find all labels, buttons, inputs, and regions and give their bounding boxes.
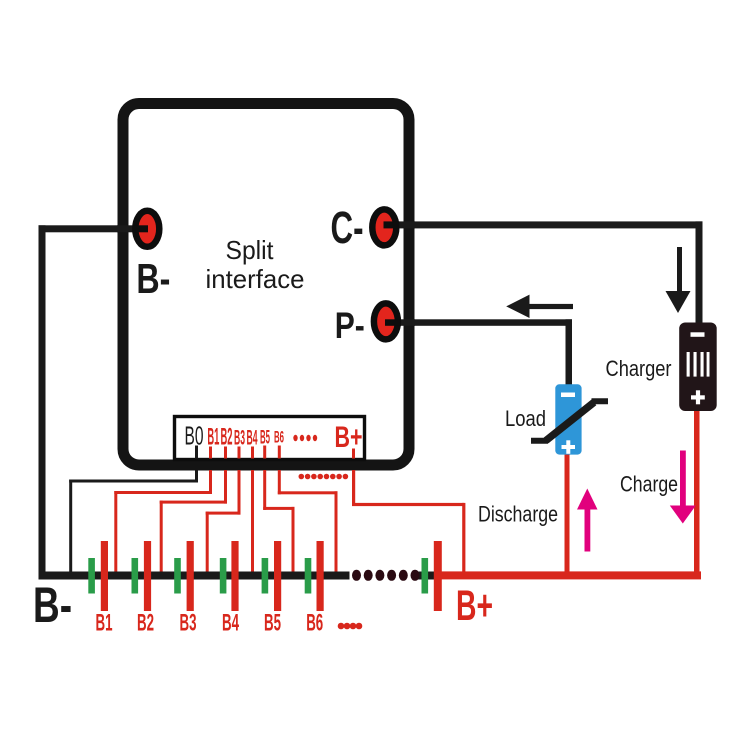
load plus mark (562, 445, 576, 449)
svg-text:B1: B1 (96, 610, 113, 637)
svg-text:B4: B4 (222, 610, 239, 637)
svg-text:B6: B6 (274, 428, 284, 447)
cell B1 red plate (101, 541, 108, 611)
svg-text:B5: B5 (260, 428, 270, 449)
switch diagonal over load (531, 401, 608, 441)
wire P- vertical down to load (566, 319, 573, 386)
wire B+ balance (352, 470, 465, 573)
charger minus mark (691, 332, 705, 337)
cell B4 red plate (231, 541, 238, 611)
op board: BMS split interface module (123, 104, 409, 466)
svg-text:Load: Load (505, 406, 546, 431)
svg-text:Discharge: Discharge (478, 502, 558, 527)
cell B3 red plate (187, 541, 194, 611)
wire charger red vertical (694, 410, 700, 573)
load body (555, 384, 581, 454)
cell B1 green plate (88, 558, 95, 594)
svg-text:B3: B3 (180, 610, 197, 637)
connector box on board (175, 417, 365, 460)
wire P- horizontal to right (385, 319, 572, 326)
battery main line right segment (417, 572, 435, 580)
wire B6 balance (278, 470, 338, 576)
svg-text:Split: Split (226, 235, 275, 265)
svg-text:B+: B+ (335, 421, 363, 454)
terminal B- (135, 211, 159, 247)
wire B3 balance (206, 470, 241, 576)
arrow magenta down (charge) (680, 451, 686, 508)
arrow black down (to charger) (677, 247, 682, 293)
wire discharge red vertical from load (565, 452, 570, 573)
arrow black left (discharge direction) (527, 304, 573, 309)
dotted red row below board (299, 474, 349, 480)
svg-text:B3: B3 (234, 426, 245, 450)
svg-text:B4: B4 (247, 426, 258, 450)
dots after B6 label (338, 623, 363, 630)
wire tip into B- terminal (133, 225, 148, 232)
wire B1 balance (114, 470, 212, 576)
wire stub P- through border (381, 319, 415, 326)
charger grill bars (687, 352, 710, 377)
wire B- left vertical down to battery line (39, 225, 46, 577)
cell B+ red plate (434, 541, 442, 611)
svg-text:B0: B0 (185, 421, 204, 451)
cell B3 green plate (174, 558, 181, 594)
wire C- vertical down to charger (696, 221, 703, 324)
svg-text:B2: B2 (137, 610, 154, 637)
wire tip into C- terminal (384, 221, 400, 228)
cell B6 green plate (305, 558, 312, 594)
cell B5 red plate (274, 541, 281, 611)
charger plus mark (691, 395, 705, 399)
svg-text:B-: B- (136, 255, 170, 302)
svg-text:Charge: Charge (620, 472, 678, 497)
terminal P- (374, 303, 398, 339)
svg-text:B1: B1 (207, 424, 219, 451)
svg-text:B2: B2 (221, 424, 233, 451)
svg-text:B-: B- (33, 577, 72, 633)
svg-text:Charger: Charger (606, 356, 672, 381)
wire B2 balance (160, 470, 227, 576)
svg-text:interface: interface (206, 264, 305, 294)
cell B2 green plate (132, 558, 139, 594)
battery main line left segment (39, 572, 350, 580)
wire B- left (horizontal from B- terminal to left edge corner) (39, 225, 148, 232)
svg-text:B6: B6 (306, 610, 323, 637)
cell B6 red plate (317, 541, 324, 611)
battery continuation dots (352, 570, 420, 581)
pin dots on connector (293, 435, 317, 441)
cell B5 green plate (262, 558, 269, 594)
cell B2 red plate (144, 541, 151, 611)
wire C- horizontal to right (384, 221, 703, 228)
wire stub C- through border (380, 221, 415, 228)
arrow magenta up (discharge) (585, 505, 591, 552)
svg-text:B5: B5 (264, 610, 281, 637)
svg-text:C-: C- (331, 202, 364, 253)
wire B0 balance (69, 470, 198, 576)
charger body (679, 323, 717, 412)
stub wires B1-B6,B+ inside box (209, 446, 355, 459)
wire B5 balance (263, 470, 294, 576)
terminal C- (372, 209, 396, 245)
stub wire B0 inside box (195, 446, 198, 459)
cell last green plate (422, 558, 429, 594)
wire tip into P- terminal (385, 319, 401, 326)
wire B4 balance straight down (251, 470, 254, 576)
svg-text:P-: P- (335, 305, 365, 346)
wire stub B- through border (117, 225, 152, 232)
cell B4 green plate (220, 558, 227, 594)
svg-text:B+: B+ (456, 582, 493, 630)
wire B+ main red line (442, 571, 702, 579)
load minus mark (561, 393, 575, 398)
